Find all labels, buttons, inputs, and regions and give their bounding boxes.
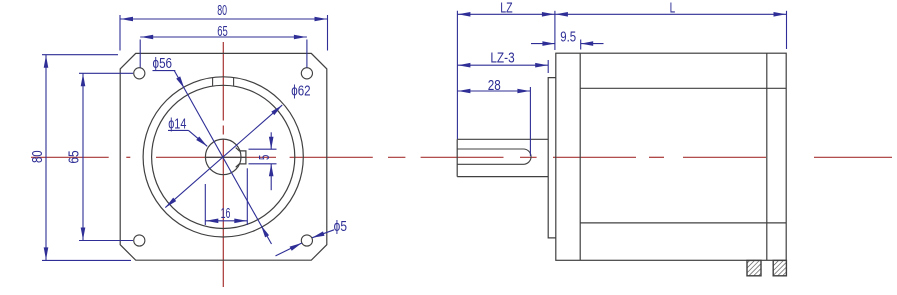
pilot boss side view: [548, 78, 556, 238]
stator bottom line: [580, 222, 786, 224]
label D56 with underline: [153, 56, 176, 72]
dimension 9.5 extension tick: [580, 40, 582, 50]
bolt hole bottom-right: [301, 235, 312, 246]
dimension 16: [205, 206, 247, 223]
dimension 5 keyway extension lines: [249, 149, 277, 164]
svg-text:ϕ5: ϕ5: [334, 219, 347, 235]
flange outline front view: [120, 53, 327, 260]
top locating notch between circles: [213, 77, 234, 86]
pilot circle D62 outer: [143, 77, 303, 237]
red vertical centerline front view: [222, 42, 224, 287]
dimension 65 top: [140, 24, 307, 40]
svg-text:80: 80: [30, 150, 46, 163]
dimension 65 left extension lines: [79, 73, 133, 240]
svg-text:65: 65: [217, 24, 228, 40]
dimension 80 top extension lines: [120, 15, 328, 51]
pilot circle D56 inner: [152, 85, 295, 228]
svg-text:5: 5: [257, 155, 273, 160]
shaft section line horizontal: [205, 156, 246, 158]
bolt hole top-right: [301, 68, 312, 79]
dimension 16 extension lines: [205, 168, 247, 225]
svg-text:16: 16: [221, 206, 231, 222]
motor body outline side view: [556, 53, 786, 260]
dimension LZ-3: [457, 51, 548, 68]
label D14 with underline and leader: [168, 117, 207, 147]
shaft circle D14: [205, 139, 241, 175]
dimension 9.5: [531, 29, 604, 46]
stator top line: [580, 87, 786, 89]
svg-text:ϕ62: ϕ62: [291, 84, 310, 100]
dimension 28 extension line into shaft: [529, 87, 531, 156]
dimension 80 left: [30, 55, 48, 261]
dimension 28: [457, 78, 530, 94]
dimension 65 top extension lines: [140, 40, 307, 68]
dimension 65 left: [67, 73, 86, 240]
shaft keyway slot side view: [457, 149, 531, 164]
dimension 80 left extension lines: [42, 55, 131, 261]
dimension D62 diagonal line: [165, 105, 282, 208]
svg-text:L: L: [670, 1, 676, 17]
dimension LZ-3 extension tick: [547, 60, 549, 73]
extension line body front face: [554, 11, 556, 50]
svg-text:LZ-3: LZ-3: [490, 51, 514, 67]
terminal foot right hatched: [773, 260, 786, 275]
red horizontal centerline full width: [31, 156, 892, 158]
svg-text:28: 28: [488, 78, 501, 94]
dimension L: [555, 1, 787, 17]
svg-text:80: 80: [217, 3, 227, 19]
dimension LZ: [457, 0, 555, 16]
shaft side view: [457, 139, 548, 176]
terminal foot left hatched: [747, 260, 761, 275]
label D62: [291, 84, 310, 100]
svg-text:9.5: 9.5: [560, 29, 576, 45]
dimension D5 leader upper arrow and label: [312, 219, 347, 238]
bolt hole bottom-left: [134, 235, 145, 246]
svg-text:ϕ56: ϕ56: [153, 56, 173, 72]
front endcap line: [579, 53, 581, 260]
svg-text:65: 65: [67, 150, 83, 163]
extension line body rear face: [786, 11, 788, 49]
keyway tab on shaft: [236, 148, 246, 168]
rear endcap line: [766, 53, 768, 260]
dimension D56 diagonal line: [174, 71, 271, 244]
dimension 5 keyway: [257, 132, 274, 190]
bolt hole top-left: [134, 68, 145, 79]
dimension 80 top: [120, 3, 328, 21]
extension line shaft tip: [456, 11, 458, 139]
svg-text:LZ: LZ: [500, 0, 513, 16]
dimension D5 leader lower arrow: [276, 243, 302, 256]
